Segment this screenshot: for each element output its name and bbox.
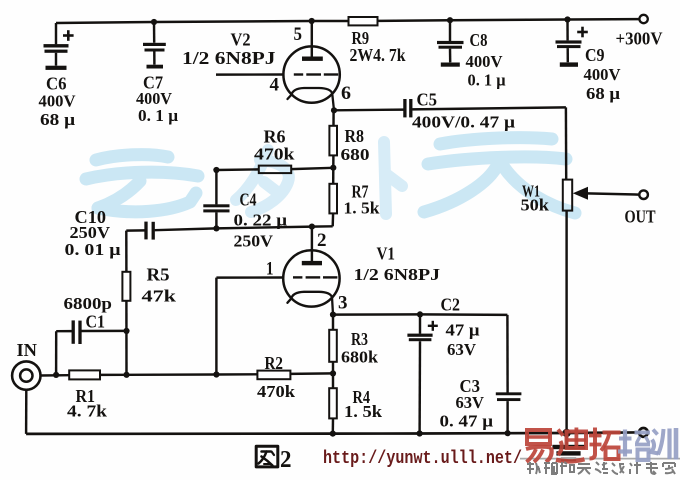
- svg-text:V2: V2: [231, 30, 251, 50]
- svg-text:470k: 470k: [257, 382, 296, 401]
- svg-text:6800p: 6800p: [64, 294, 113, 313]
- svg-text:http://yunwt.ulll.net/: http://yunwt.ulll.net/: [323, 449, 522, 469]
- svg-text:68 μ: 68 μ: [40, 110, 75, 129]
- svg-text:1. 5k: 1. 5k: [344, 402, 383, 421]
- svg-text:C4: C4: [240, 190, 257, 210]
- svg-text:68 μ: 68 μ: [586, 84, 620, 103]
- svg-text:0. 47 μ: 0. 47 μ: [440, 412, 494, 431]
- svg-text:R5: R5: [147, 265, 170, 285]
- svg-text:1/2 6N8PJ: 1/2 6N8PJ: [182, 48, 276, 68]
- svg-text:47k: 47k: [142, 287, 177, 306]
- svg-text:4: 4: [270, 75, 280, 96]
- svg-text:5: 5: [294, 24, 303, 45]
- svg-text:400V: 400V: [466, 52, 504, 71]
- svg-text:680: 680: [341, 145, 370, 164]
- svg-text:6: 6: [341, 83, 351, 104]
- svg-text:4. 7k: 4. 7k: [67, 402, 108, 421]
- svg-text:1/2 6N8PJ: 1/2 6N8PJ: [354, 265, 441, 284]
- svg-text:C5: C5: [417, 90, 438, 110]
- svg-text:0. 22 μ: 0. 22 μ: [234, 211, 288, 230]
- svg-text:63V: 63V: [447, 340, 477, 359]
- svg-text:2: 2: [317, 230, 327, 251]
- svg-text:C1: C1: [86, 312, 106, 332]
- svg-text:3: 3: [338, 293, 348, 314]
- svg-text:0. 01 μ: 0. 01 μ: [65, 240, 121, 259]
- svg-text:50k: 50k: [521, 196, 550, 215]
- svg-text:R6: R6: [264, 127, 286, 147]
- svg-text:2: 2: [280, 447, 292, 473]
- svg-text:IN: IN: [17, 340, 38, 360]
- svg-text:+300V: +300V: [616, 29, 663, 49]
- svg-text:C2: C2: [441, 295, 461, 315]
- svg-text:OUT: OUT: [625, 207, 656, 227]
- svg-text:C8: C8: [470, 30, 488, 50]
- svg-text:C9: C9: [585, 45, 605, 65]
- svg-text:R3: R3: [351, 329, 368, 349]
- svg-text:0. 1 μ: 0. 1 μ: [468, 71, 506, 90]
- svg-text:250V: 250V: [234, 232, 274, 251]
- svg-text:470k: 470k: [254, 145, 295, 164]
- svg-text:1. 5k: 1. 5k: [344, 199, 381, 218]
- svg-text:400V: 400V: [584, 65, 622, 84]
- svg-text:V1: V1: [377, 244, 396, 264]
- svg-text:R2: R2: [265, 353, 284, 373]
- svg-text:0. 1 μ: 0. 1 μ: [138, 106, 178, 125]
- svg-text:400V: 400V: [39, 92, 77, 111]
- svg-text:63V: 63V: [456, 393, 485, 412]
- svg-text:680k: 680k: [341, 348, 379, 367]
- svg-text:47 μ: 47 μ: [446, 321, 480, 340]
- svg-text:1: 1: [266, 259, 274, 280]
- svg-text:R8: R8: [345, 126, 365, 146]
- svg-text:2W4. 7k: 2W4. 7k: [350, 45, 406, 65]
- svg-text:400V/0. 47 μ: 400V/0. 47 μ: [412, 113, 515, 132]
- svg-text:C6: C6: [46, 74, 67, 94]
